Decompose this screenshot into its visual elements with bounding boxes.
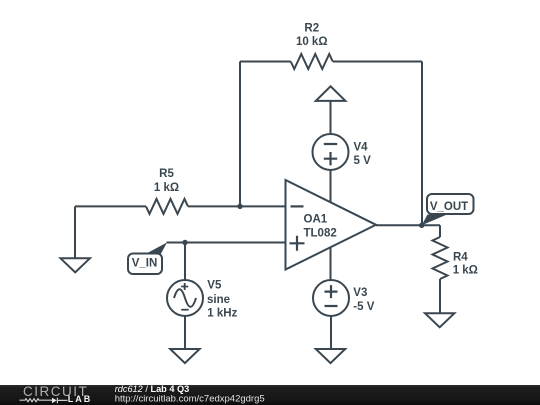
svg-text:V_IN: V_IN <box>132 258 158 270</box>
label R4 <box>453 251 478 276</box>
resistor R2 <box>291 54 333 69</box>
node flag V_OUT <box>422 194 474 225</box>
node junction at R5/feedback <box>237 204 242 209</box>
wire V5 bottom <box>184 316 186 349</box>
wire V4 to op-amp <box>330 170 332 204</box>
label R2 <box>296 23 328 49</box>
footer bar <box>0 385 540 405</box>
voltage source V3 <box>313 280 349 316</box>
node junction at V_IN <box>182 240 187 245</box>
wire V5 top <box>184 243 186 281</box>
svg-text:rdc612 / Lab 4 Q3: rdc612 / Lab 4 Q3 <box>115 384 190 394</box>
op-amp plus sign <box>290 236 305 251</box>
label V3 <box>353 287 374 313</box>
label op-amp OA1 TL082 <box>304 214 337 240</box>
svg-text:-5 V: -5 V <box>353 301 374 313</box>
wire V3 to ground <box>330 316 332 349</box>
svg-text:R4: R4 <box>453 251 468 263</box>
svg-text:R5: R5 <box>159 168 174 180</box>
svg-text:V_OUT: V_OUT <box>430 201 468 213</box>
wire arrow to V4 <box>330 101 332 134</box>
wire R4 to ground <box>439 279 441 313</box>
voltage source V4 <box>313 134 349 170</box>
svg-text:1 kHz: 1 kHz <box>207 308 237 320</box>
ground under V5 <box>170 349 199 363</box>
label V5 <box>207 280 238 320</box>
svg-text:OA1: OA1 <box>304 214 328 226</box>
ground left <box>61 258 90 272</box>
wire op-amp output <box>376 224 440 226</box>
svg-text:V3: V3 <box>353 287 367 299</box>
wire feedback top <box>240 61 422 63</box>
wire feedback left vertical <box>239 62 241 207</box>
svg-text:V4: V4 <box>354 141 369 153</box>
svg-text:1 kΩ: 1 kΩ <box>453 265 478 277</box>
node junction at output <box>419 223 424 228</box>
svg-text:http://circuitlab.com/c7edxp42: http://circuitlab.com/c7edxp42gdrg5 <box>115 394 265 405</box>
wire R5 left lead <box>75 205 146 207</box>
wire noninverting input <box>167 242 286 244</box>
svg-text:LAB: LAB <box>68 394 93 404</box>
ground under V3 <box>316 349 345 363</box>
op-amp U1 body <box>286 180 377 270</box>
svg-text:10 kΩ: 10 kΩ <box>296 36 328 48</box>
label V4 <box>354 141 372 167</box>
svg-text:1 kΩ: 1 kΩ <box>154 182 179 194</box>
wire inverting input <box>188 205 286 207</box>
voltage source V5 <box>167 280 203 316</box>
wire left ground drop <box>74 206 76 258</box>
svg-text:R2: R2 <box>304 23 319 35</box>
node flag V_IN <box>128 243 167 275</box>
resistor R4 <box>433 237 448 279</box>
label R5 <box>154 168 179 194</box>
wire feedback right vertical <box>421 62 423 226</box>
logo circuit glyph <box>20 398 68 404</box>
svg-text:5 V: 5 V <box>354 155 372 167</box>
svg-text:sine: sine <box>207 294 230 306</box>
svg-text:V5: V5 <box>207 280 222 292</box>
wire op-amp to V3 <box>330 246 332 280</box>
resistor R5 <box>146 199 188 214</box>
op-amp minus sign <box>291 205 304 207</box>
svg-text:TL082: TL082 <box>304 228 337 240</box>
wire output down to R4 <box>439 225 441 237</box>
ground under R4 <box>425 313 454 327</box>
power arrow above V4 <box>316 86 346 101</box>
